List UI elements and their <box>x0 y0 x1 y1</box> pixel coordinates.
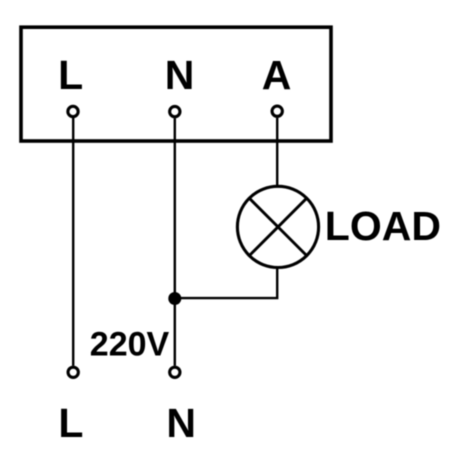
svg-text:LOAD: LOAD <box>325 203 441 249</box>
svg-text:N: N <box>165 52 195 98</box>
svg-text:L: L <box>58 400 83 446</box>
junction dot on N wire <box>168 292 181 305</box>
terminal A (open circle) <box>272 106 282 116</box>
terminal N (open circle) <box>170 106 180 116</box>
lamp LOAD (circle with X) <box>237 186 318 267</box>
svg-text:N: N <box>166 400 196 446</box>
terminal L (open circle) <box>68 106 78 116</box>
terminal box (controller outline) <box>21 27 331 141</box>
wire A vertical to lamp <box>276 118 278 187</box>
wire N vertical <box>174 118 176 366</box>
svg-text:A: A <box>262 52 292 98</box>
svg-text:220V: 220V <box>90 326 170 364</box>
terminal L bottom (open circle) <box>68 367 78 377</box>
svg-text:L: L <box>58 52 83 98</box>
wire L vertical <box>72 118 74 366</box>
terminal N bottom (open circle) <box>170 367 180 377</box>
wire lamp bottom to junction <box>175 267 277 298</box>
